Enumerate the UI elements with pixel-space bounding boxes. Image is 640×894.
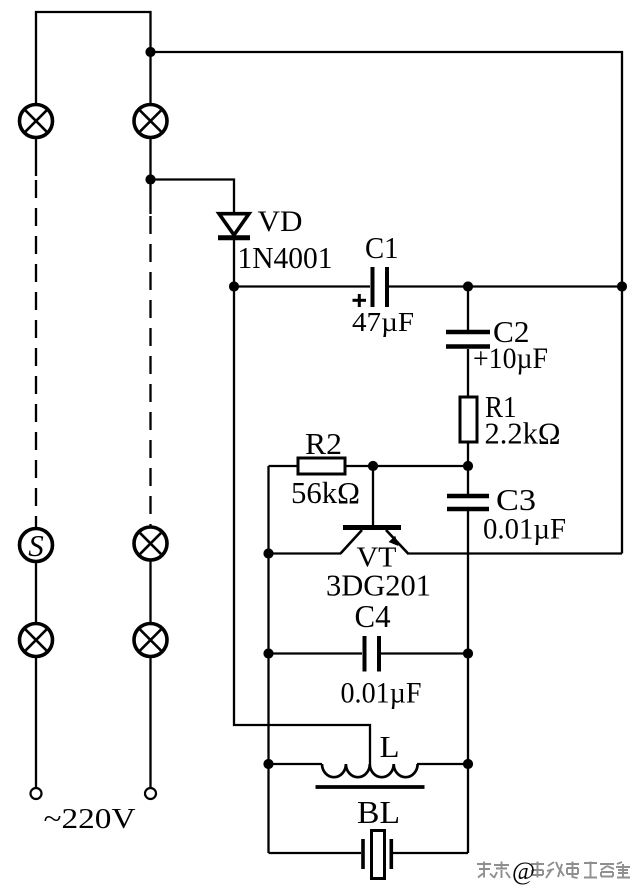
lamp EL1: [20, 105, 53, 138]
wire: C1 row left: [234, 285, 370, 287]
svg-text:1N4001: 1N4001: [238, 240, 333, 275]
junction node right rail: [617, 281, 627, 291]
svg-text:R2: R2: [305, 426, 342, 461]
junction node base: [368, 461, 378, 471]
svg-text:0.01µF: 0.01µF: [483, 514, 566, 546]
svg-text:BL: BL: [357, 794, 400, 830]
wire: emitter wire to right rail: [408, 552, 622, 554]
wire: lamp branch left dashed: [35, 180, 37, 527]
wire: L row left: [269, 763, 323, 765]
svg-text:+10µF: +10µF: [473, 343, 548, 375]
wire: right column lower: [149, 528, 151, 787]
resistor R2: [298, 458, 345, 474]
inductor core bar: [316, 785, 425, 789]
capacitor C4: [365, 636, 380, 672]
resistor R1: [460, 397, 477, 442]
lamp S (signal): [20, 528, 53, 563]
lamp EL2: [134, 105, 167, 138]
lamp EL4: [20, 624, 53, 657]
wire: bottom row left to BL: [269, 852, 362, 854]
wire: C3 bottom long drop: [467, 511, 469, 853]
watermark: [477, 862, 630, 879]
capacitor C3: [447, 496, 489, 509]
junction node C4 right: [463, 648, 473, 658]
svg-text:VD: VD: [258, 205, 303, 238]
polarity plus of C1: [353, 294, 367, 307]
lamp EL5: [134, 624, 167, 657]
wire: R1 to junction and C3: [467, 442, 469, 494]
wire: left bus vertical: [267, 466, 269, 853]
wire: collector wire: [269, 552, 342, 554]
wire: R2 right to R1 junction: [345, 465, 468, 467]
junction node top: [145, 47, 155, 57]
wire: left column lower: [35, 529, 37, 787]
wire: C1 row right: [389, 285, 622, 287]
wire: R2 row left lead: [269, 465, 299, 467]
diode VD: [218, 214, 250, 238]
svg-text:@: @: [512, 858, 535, 885]
terminal left: [31, 788, 42, 799]
inductor L: [322, 764, 418, 777]
wire: diode cathode down to tap: [234, 287, 370, 765]
svg-text:47µF: 47µF: [352, 306, 414, 337]
junction node C4 left: [263, 648, 273, 658]
wire: transistor base lead: [372, 466, 374, 526]
junction node collector bus: [263, 548, 273, 558]
lamp EL3: [134, 527, 167, 560]
wire: C4 row right: [381, 652, 468, 654]
svg-text:2.2kΩ: 2.2kΩ: [485, 416, 561, 451]
wire: L row right: [417, 763, 468, 765]
wire: bottom row BL to right: [393, 852, 468, 854]
junction node L right: [463, 759, 473, 769]
junction node R1 bottom: [463, 461, 473, 471]
svg-text:0.01µF: 0.01µF: [341, 677, 422, 710]
svg-text:56kΩ: 56kΩ: [291, 475, 360, 510]
wire: C2 top lead: [467, 287, 469, 331]
svg-text:C3: C3: [496, 482, 536, 517]
wire: lamp branch right dashed: [149, 216, 151, 526]
capacitor C1: [373, 267, 388, 307]
svg-text:C1: C1: [365, 231, 399, 265]
junction node diode cathode: [229, 281, 239, 291]
junction node L left: [263, 759, 273, 769]
junction node C1/C2: [463, 281, 473, 291]
wire: junction to diode branch: [151, 180, 235, 287]
junction node lamp branch: [145, 174, 155, 184]
capacitor C2: [446, 332, 490, 347]
terminal right: [145, 788, 156, 799]
transistor VT: [341, 528, 409, 555]
wire: C2 to R1: [467, 349, 469, 397]
svg-text:S: S: [28, 528, 44, 563]
svg-text:C4: C4: [355, 598, 391, 634]
wire: C4 row left: [269, 652, 363, 654]
svg-text:~220V: ~220V: [44, 804, 136, 835]
svg-text:L: L: [380, 729, 400, 764]
wire: mains left top loop: [36, 12, 151, 214]
wire: top feed to right rail: [151, 52, 623, 554]
buzzer BL: [363, 831, 391, 879]
